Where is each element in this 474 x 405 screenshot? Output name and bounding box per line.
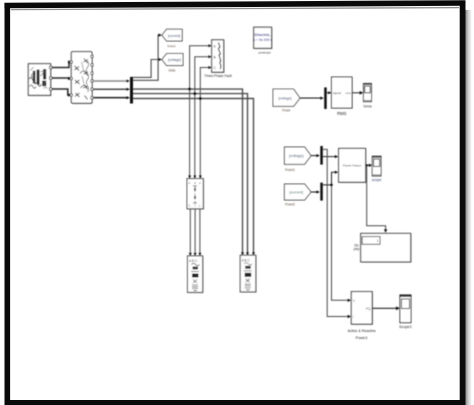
label Goto <box>169 68 176 72</box>
display block <box>361 233 412 263</box>
three-phase V-I measurement block <box>187 179 204 210</box>
active & reactive power block <box>351 292 373 326</box>
Goto tag G1 <box>162 29 182 41</box>
label From <box>282 108 290 112</box>
selector bar 5 <box>324 87 327 109</box>
svg-text:Discrete,: Discrete, <box>255 33 271 37</box>
label RMS <box>337 111 347 116</box>
label Active & Reactive Power1 <box>348 329 376 340</box>
svg-text:A B C: A B C <box>189 259 198 263</box>
selector bar 4 <box>320 183 323 201</box>
wires measurement block to load1 <box>189 209 202 256</box>
svg-text:I: I <box>353 315 354 319</box>
drop shadow right of frame <box>465 10 471 405</box>
label Display <box>354 244 360 252</box>
svg-text:1: 1 <box>377 239 379 243</box>
wire phase C riser to fault port C <box>200 66 211 178</box>
scope (power factor) <box>372 156 381 176</box>
bus line phase B <box>133 92 249 255</box>
scope Scope2 <box>400 295 411 323</box>
svg-text:From1: From1 <box>285 168 295 172</box>
svg-text:Power1: Power1 <box>356 336 368 340</box>
svg-text:s = 5e-005 s: s = 5e-005 s <box>254 38 273 42</box>
svg-text:Goto: Goto <box>169 68 176 72</box>
svg-text:Scope2: Scope2 <box>399 325 412 329</box>
wire transformer a to bus bar <box>94 80 130 83</box>
label From1 <box>285 168 295 172</box>
label Three-Phase Fault <box>204 74 231 78</box>
selector bar 3 <box>320 146 323 165</box>
RMS block <box>332 77 354 109</box>
svg-text:scope: scope <box>372 178 382 182</box>
svg-text:[voltage]: [voltage] <box>289 154 303 158</box>
three-phase transformer block <box>70 52 93 105</box>
svg-text:[current]: [current] <box>289 191 303 195</box>
wire From1 to selector bar 3 <box>311 154 320 157</box>
label Scope2 <box>399 325 412 329</box>
label Goto1 <box>167 44 176 48</box>
From tag 2 (current to PF) <box>284 184 311 200</box>
powergui block <box>254 27 273 49</box>
bus line phase C <box>133 97 255 256</box>
svg-text:Vrms: Vrms <box>363 104 372 108</box>
svg-text:RMS: RMS <box>337 111 347 116</box>
label From2 <box>285 203 295 207</box>
wires into V-I measurement block top <box>188 175 202 178</box>
bus bar node <box>130 77 133 104</box>
svg-text:Active & Reactive: Active & Reactive <box>348 329 376 333</box>
wire transformer c to bus bar <box>94 96 130 99</box>
bus line phase A <box>133 88 244 256</box>
Goto tag G2 <box>162 54 183 66</box>
label powergui <box>259 50 272 54</box>
wire A&R to Scope2 <box>372 306 400 310</box>
wire bar4 branch to PF input 2 and down to A&R input 1 <box>323 171 351 302</box>
wire source B to transformer <box>52 77 72 80</box>
label scope <box>372 178 382 182</box>
three-phase source block <box>28 64 52 97</box>
From tag 1 (voltage to PF) <box>284 147 311 164</box>
wire From to selector bar 5 <box>300 97 324 100</box>
three-phase fault block <box>212 40 225 73</box>
svg-text:rms: rms <box>346 91 352 95</box>
wire bus bar to Goto1 riser <box>133 34 162 81</box>
wire transformer b to bus bar <box>94 88 130 91</box>
wire source C to transformer <box>52 89 72 97</box>
svg-text:[voltage]: [voltage] <box>168 58 181 62</box>
svg-text:From2: From2 <box>285 203 295 207</box>
wire RMS to scope Vrms <box>352 91 363 95</box>
wire phase B riser to fault port B <box>195 55 212 178</box>
wire bar3 branch down to A&R input 2 <box>323 149 351 318</box>
svg-text:powergui: powergui <box>259 50 272 54</box>
svg-text:Three-Phase Fault: Three-Phase Fault <box>204 74 231 78</box>
wire phase A riser to fault port A <box>190 44 212 178</box>
svg-text:signal: signal <box>333 91 341 95</box>
svg-text:A B C: A B C <box>242 258 251 262</box>
svg-text:Power Factor: Power Factor <box>343 163 361 167</box>
svg-text:play: play <box>354 247 360 251</box>
inner top hairline <box>11 8 459 10</box>
wire bus bar to Goto2 riser <box>133 58 162 78</box>
svg-text:[current]: [current] <box>168 34 180 38</box>
svg-text:[voltage]: [voltage] <box>278 96 292 100</box>
wire bar5 to RMS <box>327 91 332 94</box>
From tag for RMS <box>273 89 300 106</box>
svg-text:A: A <box>188 181 190 185</box>
label Vrms <box>363 104 372 108</box>
three-phase load block 1 <box>188 256 204 293</box>
wire bar3 to PF input 1 <box>323 155 339 158</box>
power factor block <box>339 148 367 183</box>
wire PF output to scope and display branch <box>366 164 388 233</box>
wire From2 to selector bar 4 <box>311 190 320 193</box>
wire source A to transformer <box>52 60 72 67</box>
three-phase load block 2 <box>240 255 256 293</box>
scope Vrms <box>363 83 371 101</box>
svg-text:PQ: PQ <box>366 307 371 311</box>
svg-text:Goto1: Goto1 <box>167 44 176 48</box>
svg-text:From: From <box>282 108 290 112</box>
